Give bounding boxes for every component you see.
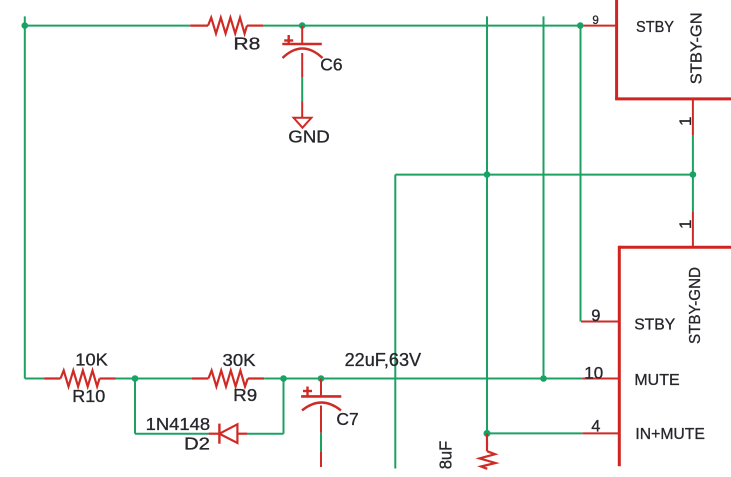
svg-text:C7: C7 bbox=[336, 409, 358, 429]
svg-text:C6: C6 bbox=[320, 55, 342, 75]
wire in+mute horizontal bbox=[487, 432, 582, 434]
node junction dot top right bbox=[577, 22, 584, 29]
wire bottom bus segment 2 bbox=[116, 378, 193, 380]
svg-text:R8: R8 bbox=[233, 34, 260, 54]
svg-text:STBY: STBY bbox=[634, 317, 675, 334]
pin 9 lead U1 bbox=[584, 25, 617, 27]
wire bottom bus segment 3 bbox=[264, 378, 582, 380]
svg-text:10K: 10K bbox=[75, 349, 108, 369]
svg-text:STBY-GN: STBY-GN bbox=[688, 12, 705, 84]
wire vertical x487 bbox=[486, 16, 488, 433]
op-amp U2 box bottom-right bbox=[619, 246, 731, 466]
wire diode loop right vertical bbox=[283, 379, 285, 434]
svg-text:9: 9 bbox=[591, 307, 600, 325]
svg-text:1N4148: 1N4148 bbox=[146, 414, 211, 434]
pin 4 lead U2 bbox=[582, 432, 619, 434]
wire diode loop left vertical bbox=[134, 379, 136, 434]
node junction dot R9 out bbox=[280, 375, 287, 382]
pin 1 lead U1 bottom bbox=[692, 99, 694, 136]
svg-text:IN+MUTE: IN+MUTE bbox=[635, 426, 705, 443]
node junction dot mid x692.9 bbox=[690, 171, 697, 178]
capacitor C7 bbox=[301, 379, 359, 433]
pin 9 lead U2 bbox=[581, 321, 619, 323]
svg-text:4: 4 bbox=[591, 418, 600, 436]
svg-text:1: 1 bbox=[676, 117, 695, 126]
node A junction dot top-left bbox=[22, 22, 29, 29]
node junction dot x487 in+mute bbox=[484, 430, 491, 437]
wire pin1 U1 to mid bus bbox=[692, 136, 694, 175]
diode D2 bbox=[146, 414, 248, 453]
resistor R8 bbox=[190, 18, 263, 54]
svg-text:30K: 30K bbox=[223, 350, 256, 370]
wire vertical x580.5 bbox=[580, 26, 582, 322]
pin 1 lead U2 top bbox=[692, 211, 694, 247]
svg-text:STBY: STBY bbox=[636, 19, 674, 36]
node junction dot R10-R9 bbox=[132, 375, 139, 382]
wire bottom bus segment 1 bbox=[25, 378, 44, 380]
resistor R9 bbox=[192, 350, 264, 405]
wire diode loop right horizontal bbox=[247, 433, 283, 435]
pin 10 lead U2 bbox=[582, 378, 619, 380]
svg-text:9: 9 bbox=[592, 15, 598, 27]
wire below C7 bbox=[320, 433, 322, 452]
svg-text:8uF: 8uF bbox=[436, 441, 456, 470]
svg-text:MUTE: MUTE bbox=[634, 372, 679, 389]
wire mid-left vertical bbox=[394, 175, 396, 469]
ground GND bbox=[288, 102, 330, 147]
wire C6 to GND bbox=[301, 77, 303, 102]
wire left vertical bbox=[24, 26, 26, 379]
wire top bus left segment bbox=[25, 16, 190, 25]
wire top bus right segment bbox=[263, 25, 580, 27]
svg-text:STBY-GND: STBY-GND bbox=[687, 267, 704, 344]
op-amp U1 box top-right bbox=[615, 0, 731, 99]
wire diode loop left horizontal bbox=[135, 433, 209, 435]
node junction dot at C6 tap bbox=[299, 22, 306, 29]
wire mid bus to U2 pin1 bbox=[692, 175, 694, 212]
svg-text:GND: GND bbox=[288, 127, 330, 147]
node junction dot C7 tap bbox=[318, 375, 325, 382]
svg-text:D2: D2 bbox=[184, 433, 210, 453]
wire mid horizontal bus bbox=[395, 174, 693, 176]
svg-text:1: 1 bbox=[676, 220, 695, 229]
wire vertical x543.5 bbox=[543, 16, 545, 378]
resistor below x487 bbox=[480, 433, 496, 468]
svg-text:22uF,63V: 22uF,63V bbox=[345, 350, 422, 370]
resistor R10 bbox=[44, 349, 115, 406]
svg-text:R10: R10 bbox=[72, 386, 105, 406]
svg-text:R9: R9 bbox=[233, 385, 257, 405]
svg-text:10: 10 bbox=[584, 364, 603, 383]
capacitor C6 bbox=[282, 26, 342, 77]
node junction dot x543.5 mute bbox=[540, 375, 547, 382]
node junction dot mid x487 bbox=[484, 171, 491, 178]
lead below C7 wire bbox=[320, 452, 322, 467]
